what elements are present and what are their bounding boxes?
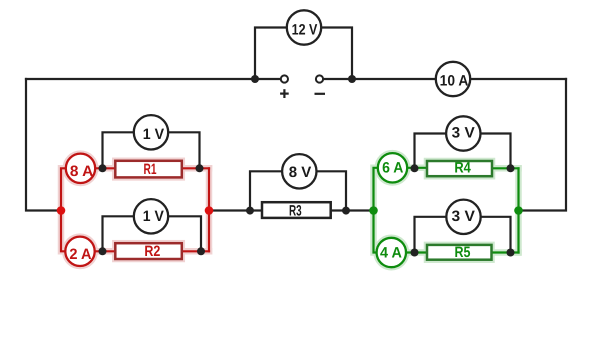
svg-text:R3: R3 [289,203,302,220]
svg-text:3 V: 3 V [452,208,475,225]
svg-text:4 A: 4 A [380,245,402,262]
svg-text:8 V: 8 V [289,164,312,181]
svg-text:8 A: 8 A [70,163,94,180]
svg-text:6 A: 6 A [382,160,403,177]
svg-text:2 A: 2 A [69,246,91,263]
svg-text:R4: R4 [454,160,471,177]
svg-text:1 V: 1 V [143,126,164,143]
svg-text:3 V: 3 V [452,124,475,141]
svg-text:1 V: 1 V [143,208,164,225]
svg-text:R5: R5 [455,244,471,261]
svg-text:R2: R2 [144,243,160,260]
svg-text:R1: R1 [144,161,157,178]
svg-text:12 V: 12 V [292,21,318,38]
svg-text:10 A: 10 A [440,73,469,90]
